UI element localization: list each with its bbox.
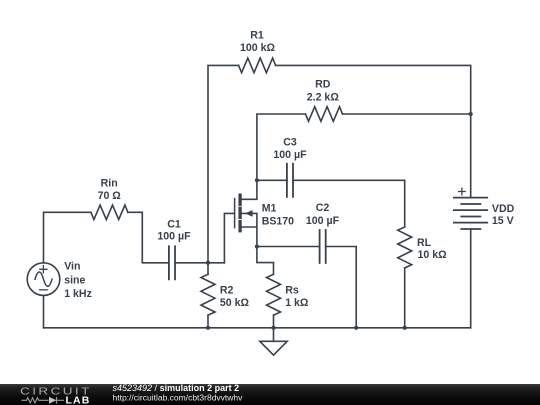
svg-text:50 kΩ: 50 kΩ — [220, 297, 250, 309]
wire ground rail — [44, 327, 471, 329]
wire Rin to C1 — [128, 212, 169, 262]
svg-text:http://circuitlab.com/cbt3r8dv: http://circuitlab.com/cbt3r8dvvtwhv — [113, 392, 244, 402]
junction node drain/C3 — [255, 178, 259, 182]
wire C3 to RL — [293, 180, 405, 227]
svg-text:15 V: 15 V — [492, 215, 514, 227]
wire drain to RD — [257, 114, 306, 180]
wire Vin bottom — [43, 295, 45, 327]
svg-text:BS170: BS170 — [262, 215, 294, 227]
junction node source/C2/Rs — [255, 244, 259, 248]
svg-text:LAB: LAB — [66, 395, 91, 405]
svg-text:100 µF: 100 µF — [157, 230, 191, 242]
resistor RD — [306, 107, 343, 122]
Vin minus sign — [40, 289, 48, 291]
wire R1 to VDD rail — [276, 65, 471, 197]
wire RL bottom — [404, 268, 406, 328]
wire gate jog — [224, 213, 234, 262]
wire Rs bottom — [273, 315, 275, 328]
svg-text:C3: C3 — [283, 136, 297, 148]
svg-text:C2: C2 — [316, 202, 330, 214]
resistor Rin — [91, 205, 128, 220]
svg-text:Vin: Vin — [64, 261, 80, 273]
capacitor C2 — [320, 230, 326, 263]
MOSFET M1 drain wire — [241, 180, 257, 199]
junction node ground/C2 branch — [354, 326, 358, 330]
wire R2 top — [207, 263, 209, 275]
wire source jog to Rs — [257, 247, 274, 275]
svg-text:VDD: VDD — [492, 203, 515, 215]
junction node ground/Rs — [271, 326, 275, 330]
svg-text:1 kΩ: 1 kΩ — [285, 297, 309, 309]
ground triangle — [260, 341, 287, 355]
svg-text:M1: M1 — [262, 202, 277, 214]
capacitor C1 — [169, 246, 175, 279]
svg-text:Rs: Rs — [285, 284, 299, 296]
junction node ground/R2 — [206, 326, 210, 330]
svg-text:sine: sine — [64, 274, 85, 286]
logo squiggle wire — [22, 397, 65, 404]
svg-text:100 kΩ: 100 kΩ — [240, 42, 276, 54]
svg-text:1 kHz: 1 kHz — [64, 288, 92, 300]
svg-text:2.2 kΩ: 2.2 kΩ — [307, 92, 340, 104]
svg-text:RL: RL — [417, 237, 432, 249]
logo diode — [49, 397, 56, 404]
junction node VDD rail/RD — [469, 112, 473, 116]
wire Vin top to Rin — [44, 212, 91, 262]
MOSFET M1 channel bars — [238, 195, 241, 231]
Vin plus sign — [40, 266, 47, 273]
Vin sine wave — [35, 272, 52, 286]
svg-text:100 µF: 100 µF — [306, 215, 340, 227]
svg-text:70 Ω: 70 Ω — [98, 190, 122, 202]
voltage source Vin circle — [27, 263, 60, 296]
svg-text:R1: R1 — [250, 29, 264, 41]
ground stem — [273, 328, 275, 342]
battery VDD plates — [454, 198, 487, 223]
battery plus sign — [459, 188, 466, 195]
resistor RL — [398, 227, 412, 268]
capacitor C3 — [287, 164, 293, 197]
wire RD to VDD rail — [343, 113, 471, 115]
wire battery bottom — [470, 229, 472, 328]
resistor Rs — [267, 274, 281, 315]
svg-text:100 µF: 100 µF — [273, 149, 307, 161]
svg-text:RD: RD — [315, 79, 331, 91]
svg-text:C1: C1 — [167, 218, 181, 230]
wire drain node to C3 — [257, 179, 287, 181]
svg-text:R2: R2 — [220, 284, 234, 296]
junction node gate/C1/R1/R2 — [206, 261, 210, 265]
svg-text:10 kΩ: 10 kΩ — [418, 249, 448, 261]
resistor R2 — [201, 274, 215, 315]
svg-text:Rin: Rin — [101, 178, 118, 190]
wire C2 right down — [326, 247, 357, 328]
MOSFET M1 gate bar — [234, 199, 236, 228]
junction node ground/RL — [403, 326, 407, 330]
wire R2 bottom — [207, 315, 209, 328]
svg-text:s4523492 / simulation 2 part 2: s4523492 / simulation 2 part 2 — [113, 383, 240, 393]
resistor R1 — [239, 58, 276, 73]
wire C1 to gate-node — [175, 262, 224, 264]
MOSFET M1 source + body wires — [241, 213, 257, 246]
wire node to R1 top branch — [208, 65, 239, 262]
MOSFET body arrow — [245, 210, 253, 217]
wire source node to C2 — [257, 246, 320, 248]
